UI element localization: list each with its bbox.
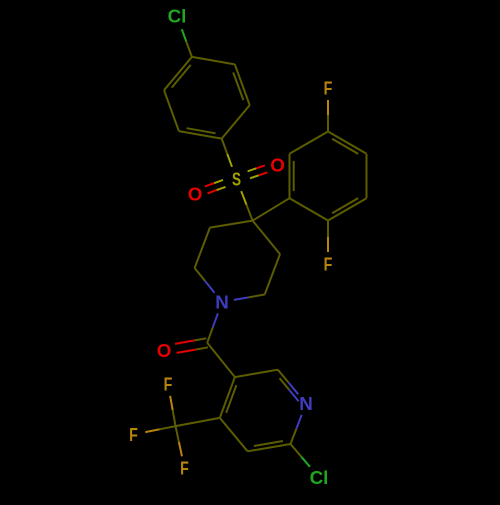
CF3 bond C-F (left)	[145, 426, 175, 432]
bond aryl-S	[222, 139, 232, 167]
chlorophenyl ring double bond C2=C3	[233, 64, 250, 105]
difluorophenyl ring bond BR-TR	[366, 154, 368, 198]
piperidine ring bond C3-C4	[210, 221, 253, 228]
svg-text:O: O	[157, 340, 172, 361]
svg-text:N: N	[215, 292, 229, 313]
pyridine ring bond C3-C4	[220, 418, 248, 451]
svg-text:O: O	[188, 184, 203, 205]
pyridine ring bond N-C2	[291, 415, 302, 444]
bond C(=O)-pyridine	[207, 343, 235, 377]
pyridine ring double bond C2=C3	[248, 441, 291, 451]
piperidine ring bond C4-C5	[253, 221, 280, 255]
difluorophenyl ring double bond TL=A	[290, 154, 294, 198]
difluorophenyl ring double bond TR=T	[328, 132, 367, 154]
pyridine ring double bond C=N	[278, 370, 299, 402]
difluorophenyl ring bond A-B	[290, 198, 329, 220]
svg-text:Cl: Cl	[168, 6, 187, 27]
bond C-Cl (chloro substituent)	[182, 29, 192, 57]
svg-text:F: F	[129, 424, 138, 445]
CF3 bond C-F (lower)	[176, 426, 183, 456]
chlorophenyl ring double bond C6=C1	[164, 57, 192, 90]
svg-text:O: O	[270, 155, 285, 176]
pyridine ring double bond C4=C5	[220, 377, 237, 418]
svg-text:Cl: Cl	[310, 467, 329, 488]
chlorophenyl ring double bond C4=C5	[179, 128, 222, 138]
svg-text:F: F	[164, 374, 173, 395]
svg-text:N: N	[299, 393, 313, 414]
carbonyl double bond C=O	[175, 338, 208, 353]
piperidine ring bond C5-C6	[265, 254, 280, 294]
CF3 bond C-F (upper)	[170, 396, 175, 426]
sulfonyl double bond S=O (left)	[205, 180, 226, 194]
sulfonyl double bond S=O (right)	[248, 165, 268, 178]
chlorophenyl ring bond C3-C4	[222, 105, 250, 138]
piperidine ring bond C6-N	[234, 295, 265, 300]
amide bond N-C(=O)	[207, 313, 218, 343]
bond C-F (top fluorine)	[327, 100, 329, 132]
difluorophenyl ring bond T-TL	[290, 132, 329, 154]
bond C-Cl (chloropyridine)	[291, 444, 310, 467]
svg-text:F: F	[324, 254, 333, 275]
piperidine ring bond N-C2	[195, 268, 215, 293]
chlorophenyl ring bond C1-C2	[192, 57, 235, 65]
chlorophenyl ring bond C5-C6	[164, 90, 179, 131]
bond C-aryl (to difluorophenyl)	[253, 198, 290, 220]
svg-text:F: F	[180, 458, 189, 479]
bond S-C (sulfonyl to quaternary carbon)	[241, 191, 252, 221]
svg-text:S: S	[232, 169, 241, 190]
bond C-F (bottom fluorine)	[327, 221, 329, 253]
pyridine ring bond	[235, 370, 278, 377]
piperidine ring bond C2-C3	[195, 228, 210, 268]
bond C-CF3	[176, 418, 220, 426]
svg-text:F: F	[324, 78, 333, 99]
difluorophenyl ring double bond B=BR	[328, 198, 367, 220]
